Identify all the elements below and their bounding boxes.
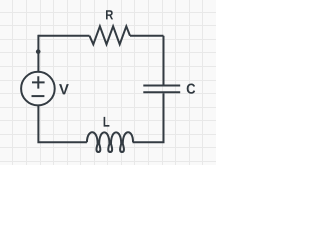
- inductor L coil: [87, 132, 133, 152]
- label V: [59, 84, 69, 94]
- wire capacitor to top-right corner: [163, 36, 165, 85]
- wire coil to bottom-right corner up to capacitor: [133, 93, 164, 142]
- resistor R zigzag: [90, 26, 131, 44]
- canvas background: [0, 0, 216, 165]
- wire left vertical upper: [37, 35, 39, 72]
- label R: [106, 10, 113, 19]
- wire top-left to resistor: [38, 35, 89, 37]
- label C: [187, 84, 196, 94]
- wire left vertical lower and bottom-left: [38, 105, 87, 142]
- junction dot: [36, 49, 41, 54]
- label L: [104, 117, 110, 127]
- capacitor C plates: [143, 86, 180, 93]
- voltage source V circle body: [21, 72, 55, 106]
- plus sign: [32, 76, 45, 88]
- wire resistor to top-right corner: [130, 35, 164, 37]
- minus sign: [32, 95, 45, 97]
